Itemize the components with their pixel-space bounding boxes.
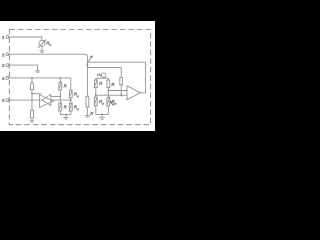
ground for middle column [85,115,90,117]
svg-text:φ: φ [102,102,105,106]
junction: feedback to input [120,94,122,96]
wire A: node A to output riser [87,61,145,63]
svg-text:3: 3 [2,63,5,68]
ground for right bridge [101,114,103,116]
wire: tap to amplifier pair [32,93,41,95]
wire: amp to left bridge tap upper [51,95,60,97]
wire: left bridge bottom bar [60,114,71,116]
resistor R6 (slashed) [94,80,97,88]
wire: amp to left bridge tap lower [51,99,71,101]
wire: upper tap to op-amp input [108,90,127,92]
terminal 5 [6,99,9,102]
terminal 1 [6,36,9,39]
wire: terminal 1 to current source [9,37,42,41]
node: rail to resistor Ra [31,77,33,79]
resistor R8 [107,80,110,88]
svg-text:R: R [64,83,67,88]
wire: node A down the middle column [86,57,88,96]
ground for Rb [30,120,34,122]
branch: resistor Ra column at x=32 [31,78,33,83]
resistor Rb [31,110,34,118]
wire: right bridge top bar [96,77,109,79]
node: rail to bridge column [59,77,61,79]
wire: terminal 2 long rail to node A [9,54,88,57]
ground for terminal 3 [35,70,40,72]
resistor R5 (middle column) [86,96,89,107]
resistor R1 (slashed) [59,82,62,89]
svg-text:φ: φ [77,94,80,98]
wire: feedback resistor to inverting input [120,85,122,95]
node: column2 tap to non-inverting input [107,90,109,92]
wire: terminal 3 to ground [9,65,38,71]
resistor R4 (slashed) [69,103,72,111]
svg-text:4: 4 [2,76,5,81]
resistor RN (feedback) [120,78,123,85]
wire: lower tap to op-amp input [96,94,127,96]
current source B1 (circle with trim arrow) [39,41,45,47]
left bridge column 2 (x=70.8) [70,78,72,91]
svg-text:5: 5 [2,98,5,103]
amplifier N2 (left-pointing triangle) [42,94,51,105]
svg-text:1: 1 [2,35,5,40]
terminal 4 [6,77,9,80]
wire: terminal 4 rail [9,77,71,79]
svg-text:φ: φ [77,107,80,111]
amplifier N1 (right-pointing triangle) [40,95,54,108]
svg-text:R: R [90,111,93,116]
terminal 2 [6,53,9,56]
resistor R7 (slashed) [94,97,97,105]
node A junction dot [86,64,88,66]
op-amp N (output amplifier) [127,86,140,100]
left bridge column 1 (x=60.3) [59,78,61,83]
wiper arrow at node A [87,57,92,63]
resistor R3 (slashed) [69,91,72,98]
svg-text:φ: φ [114,102,117,106]
svg-text:R: R [64,104,67,109]
svg-text:2: 2 [2,52,5,57]
right bridge column 1 (x=95.8) [95,78,97,80]
node: column1 tap to inverting input [95,94,97,96]
svg-text:V: V [49,43,52,47]
node: column2 tap [70,99,72,101]
wire B: node A to feedback resistor [87,68,121,78]
node: column1 tap [59,96,61,98]
wire: right bridge bottom bar [96,113,109,115]
svg-text:R: R [99,81,102,86]
wire: terminal 5 to amplifier pair [9,99,43,101]
dashed enclosure border [9,30,150,125]
ground for current source [41,46,43,50]
node: Ra column tap [31,93,33,95]
svg-text:R: R [111,82,114,87]
resistor R9 (slashed) [107,97,110,105]
terminal 3 [6,64,9,67]
ground for left bridge [65,114,67,116]
right bridge column 2 (x=108.3) [107,78,109,80]
resistor Ra [31,83,34,89]
resistor R2 (slashed) [59,103,62,111]
wire: output riser down to op-amp output [140,62,145,93]
current source U0 [101,73,105,77]
